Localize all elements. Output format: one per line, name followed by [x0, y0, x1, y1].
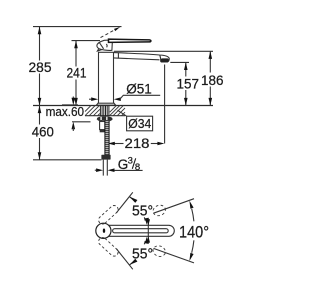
svg-text:55°: 55° [132, 245, 153, 262]
svg-text:8: 8 [135, 162, 140, 173]
svg-text:285: 285 [29, 59, 52, 75]
svg-text:Ø34: Ø34 [128, 116, 151, 131]
svg-text:max.60: max.60 [46, 104, 85, 119]
svg-text:Ø51: Ø51 [126, 81, 152, 96]
svg-text:241: 241 [67, 65, 87, 81]
svg-text:3: 3 [128, 156, 133, 167]
svg-text:460: 460 [32, 123, 54, 139]
svg-text:157: 157 [177, 75, 200, 91]
svg-text:55°: 55° [132, 202, 153, 219]
svg-text:218: 218 [125, 135, 150, 151]
svg-text:140°: 140° [179, 224, 209, 242]
svg-text:186: 186 [201, 72, 224, 88]
